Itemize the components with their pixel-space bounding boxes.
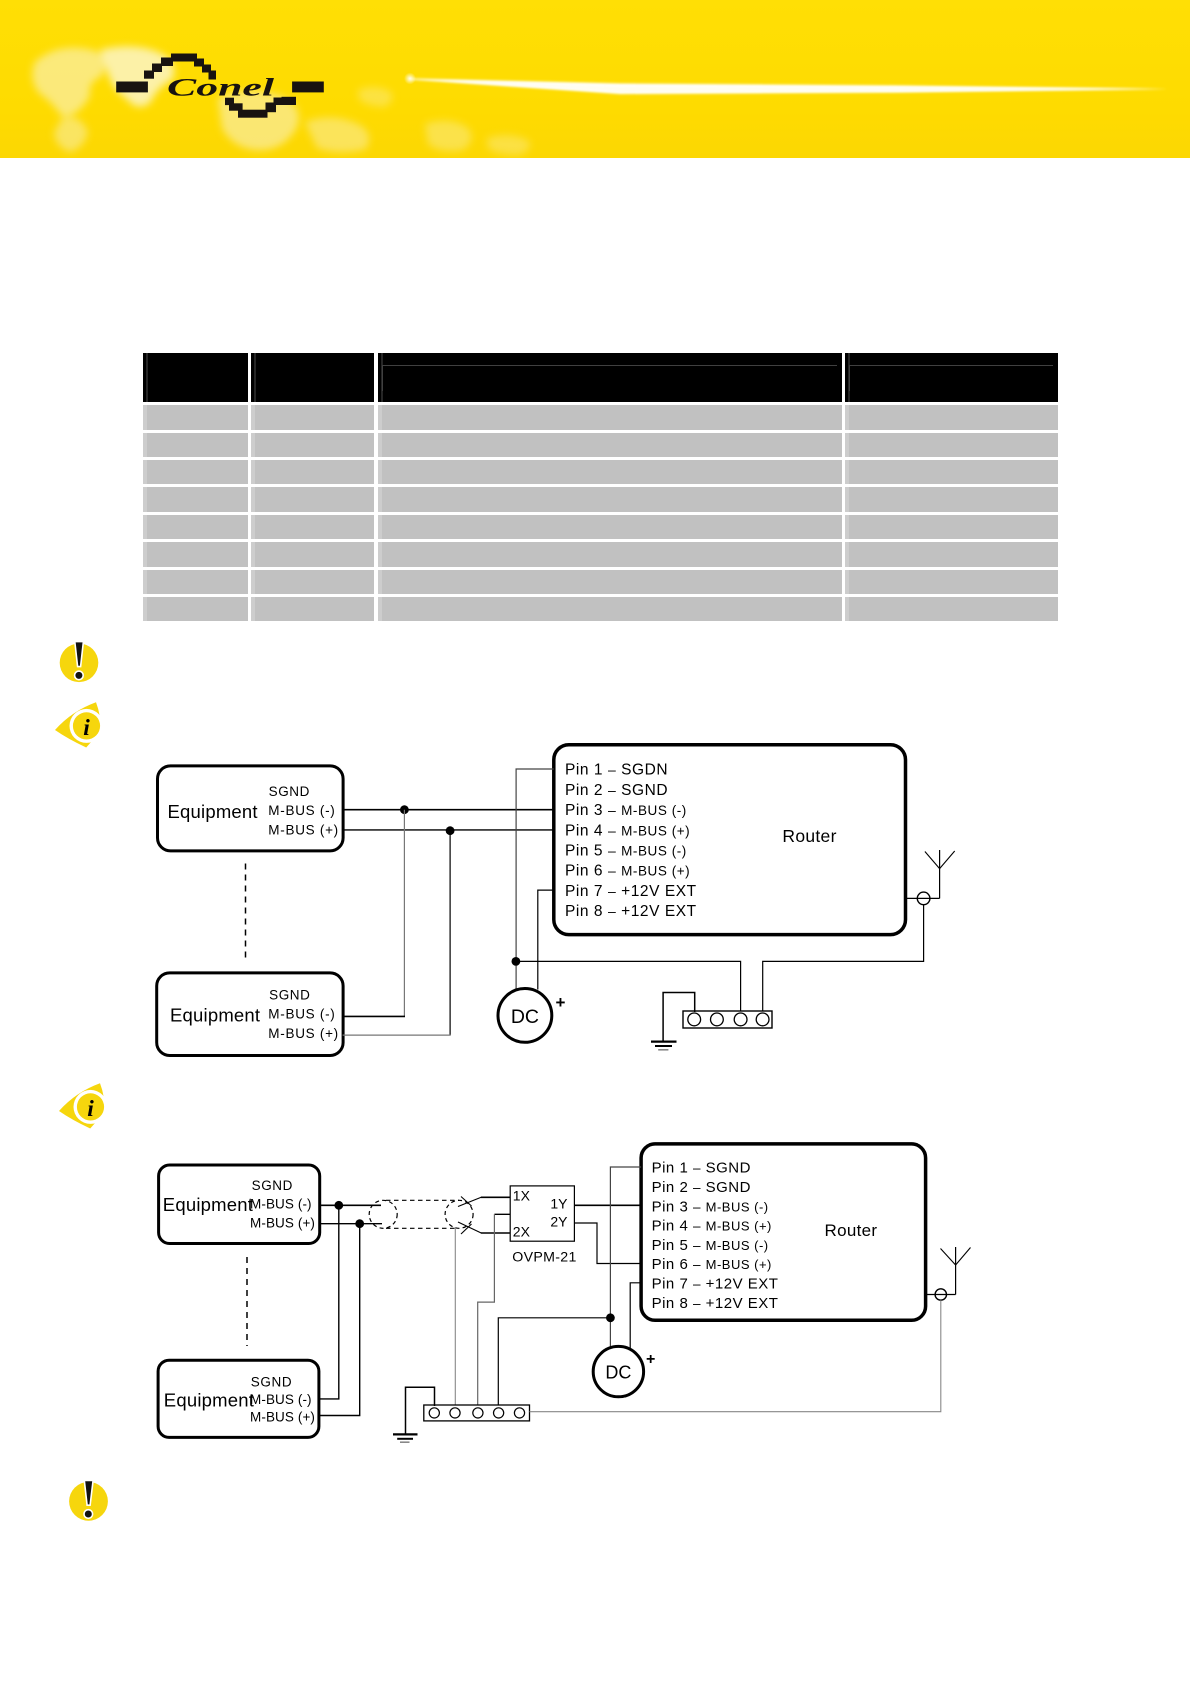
wiring diagram 2: M-BUS with OVPM-21 overvoltage protection: [140, 1140, 1000, 1460]
svg-text:Pin 6 – M-BUS (+): Pin 6 – M-BUS (+): [565, 863, 690, 880]
terminal hole 1: [429, 1408, 439, 1418]
info icon 1: [50, 697, 106, 753]
terminal hole 2: [450, 1408, 460, 1418]
equipment box E2: [157, 973, 343, 1056]
svg-text:2Y: 2Y: [550, 1213, 568, 1229]
svg-text:DC: DC: [511, 1006, 539, 1028]
svg-text:+: +: [556, 993, 566, 1012]
svg-text:Pin 3 – M-BUS (-): Pin 3 – M-BUS (-): [652, 1198, 769, 1215]
wire earth to terminal 1: [406, 1387, 435, 1434]
terminal hole 4: [494, 1408, 504, 1418]
wire pin7 to DC plus: [630, 1283, 641, 1348]
svg-text:Pin 1 – SGND: Pin 1 – SGND: [652, 1160, 751, 1177]
wire antenna net to terminal 5: [530, 1300, 941, 1412]
terminal hole 5: [514, 1408, 524, 1418]
svg-text:M-BUS (+): M-BUS (+): [268, 1026, 339, 1041]
shielded cable top: [386, 1199, 459, 1201]
wire earth to terminal 1: [663, 993, 695, 1042]
junction dot E: [355, 1219, 364, 1228]
terminal block 2: [424, 1405, 530, 1421]
wire pin1 to DC minus: [516, 769, 554, 990]
svg-text:Equipment: Equipment: [170, 1004, 260, 1025]
svg-text:M-BUS (-): M-BUS (-): [250, 1197, 312, 1212]
junction dot C: [512, 957, 521, 966]
svg-text:1Y: 1Y: [550, 1196, 568, 1212]
antenna mast 2: [955, 1247, 957, 1295]
wire OVPM ground pin: [494, 1213, 510, 1215]
antenna connector circle 2: [935, 1289, 946, 1300]
svg-text:Pin 1 – SGDN: Pin 1 – SGDN: [565, 762, 668, 779]
terminal hole 4: [756, 1013, 769, 1026]
wire router to antenna connector: [906, 897, 940, 899]
wire OVPM ground drop: [478, 1214, 495, 1406]
warning icon 1: [55, 638, 105, 688]
wire router to antenna connector 2: [926, 1294, 956, 1296]
OVPM-21 box: [510, 1186, 574, 1241]
lower pixel arc: [225, 98, 234, 105]
equipment box E3: [159, 1165, 320, 1244]
svg-text:Equipment: Equipment: [168, 801, 258, 822]
white light streak: [380, 60, 1190, 120]
svg-text:Router: Router: [825, 1221, 878, 1240]
svg-text:Equipment: Equipment: [164, 1389, 254, 1410]
Conel logo: [108, 44, 338, 129]
shielded cable left end: [369, 1200, 397, 1228]
antenna arm right: [940, 851, 955, 869]
wire to 1X: [481, 1196, 510, 1198]
wire pin7 to DC plus: [538, 890, 554, 989]
dashed ellipsis between equipments: [245, 864, 247, 962]
info icon 2: [54, 1078, 110, 1134]
terminal hole 3: [734, 1013, 747, 1026]
wire E3 M-BUS(+): [320, 1223, 382, 1225]
svg-text:M-BUS (+): M-BUS (+): [250, 1216, 315, 1231]
svg-text:Pin 7 – +12V EXT: Pin 7 – +12V EXT: [565, 883, 697, 900]
svg-text:Pin 2 – SGND: Pin 2 – SGND: [652, 1179, 751, 1196]
DC source 2: [593, 1346, 643, 1396]
terminal block: [683, 1011, 772, 1028]
wiring diagram 1: direct M-BUS connection: [140, 740, 1000, 1070]
svg-text:M-BUS (-): M-BUS (-): [268, 803, 335, 818]
wire E2 M-BUS(+): [343, 1034, 451, 1036]
faint world map: [0, 0, 700, 158]
antenna mast: [939, 850, 941, 898]
svg-text:Pin 4 – M-BUS (+): Pin 4 – M-BUS (+): [652, 1218, 772, 1235]
wire bus(-) drop to E4: [319, 1205, 339, 1399]
twisted pair crossover top: [458, 1197, 481, 1206]
wire DC net to terminal 3: [516, 961, 741, 1013]
ground symbol 2: [393, 1434, 418, 1442]
twisted pair crossover bottom: [458, 1222, 481, 1233]
svg-text:Pin 2 – SGND: Pin 2 – SGND: [565, 782, 668, 799]
antenna arm right 2: [956, 1248, 971, 1266]
shielded cable right end: [445, 1200, 473, 1228]
warning icon 2: [64, 1477, 114, 1527]
svg-text:M-BUS (+): M-BUS (+): [268, 823, 339, 838]
wire 2Y to router pin6: [574, 1223, 641, 1264]
svg-text:Conel: Conel: [167, 73, 276, 102]
antenna arm left: [925, 852, 940, 869]
router box R2: [641, 1144, 926, 1320]
upper pixel arc: [144, 71, 154, 79]
junction dot A: [400, 805, 409, 814]
wire to 2X: [481, 1232, 510, 1234]
svg-text:Pin 3 – M-BUS (-): Pin 3 – M-BUS (-): [565, 802, 687, 819]
junction dot B: [446, 826, 455, 835]
wire bus(-) vertical drop: [403, 810, 405, 1017]
svg-text:SGND: SGND: [269, 784, 310, 799]
svg-text:OVPM-21: OVPM-21: [512, 1250, 576, 1266]
wire E1 M-BUS(-) to router pin3: [343, 809, 554, 811]
dashed ellipsis between equipments: [246, 1257, 248, 1346]
svg-text:M-BUS (+): M-BUS (+): [250, 1410, 315, 1425]
terminal hole 2: [711, 1013, 724, 1026]
antenna connector circle: [917, 892, 930, 905]
svg-text:Pin 8 – +12V EXT: Pin 8 – +12V EXT: [565, 903, 697, 920]
terminal hole 1: [688, 1013, 701, 1026]
DC source: [498, 989, 552, 1043]
svg-text:Pin 8 – +12V EXT: Pin 8 – +12V EXT: [652, 1295, 779, 1312]
svg-text:SGND: SGND: [269, 987, 310, 1002]
terminal hole 3: [473, 1408, 483, 1418]
svg-text:i: i: [83, 715, 90, 741]
router box: [554, 745, 906, 935]
svg-text:Equipment: Equipment: [163, 1194, 253, 1215]
svg-text:i: i: [87, 1096, 94, 1122]
svg-text:Router: Router: [782, 826, 836, 846]
svg-text:Pin 5 – M-BUS (-): Pin 5 – M-BUS (-): [565, 843, 687, 860]
shield drain wire: [454, 1227, 456, 1406]
pin description table (redacted cells): [143, 353, 1058, 622]
svg-text:M-BUS (-): M-BUS (-): [268, 1007, 335, 1022]
antenna arm left 2: [941, 1249, 956, 1266]
svg-text:DC: DC: [605, 1362, 631, 1382]
svg-text:Pin 4 – M-BUS (+): Pin 4 – M-BUS (+): [565, 822, 690, 839]
junction dot F: [606, 1313, 615, 1322]
svg-text:M-BUS (-): M-BUS (-): [250, 1392, 312, 1407]
wire E2 M-BUS(-): [343, 1015, 405, 1017]
equipment box E1: [158, 766, 344, 851]
shielded cable bottom: [386, 1227, 456, 1229]
svg-text:2X: 2X: [513, 1223, 531, 1239]
svg-text:+: +: [646, 1351, 655, 1368]
svg-text:SGND: SGND: [252, 1178, 293, 1193]
wire bus(+) drop to E4: [319, 1224, 360, 1416]
junction dot D: [334, 1201, 343, 1210]
wire pin1 to DC minus: [610, 1167, 641, 1348]
yellow header band: [0, 0, 1190, 158]
ground symbol: [651, 1042, 677, 1050]
wire bus(+) vertical drop: [449, 831, 451, 1035]
svg-text:Pin 6 – M-BUS (+): Pin 6 – M-BUS (+): [652, 1256, 772, 1273]
wire antenna net to terminal 4: [763, 905, 924, 1013]
svg-text:Pin 5 – M-BUS (-): Pin 5 – M-BUS (-): [652, 1237, 769, 1254]
wire E1 M-BUS(+) to router pin4: [343, 829, 554, 831]
wire DC net to terminal 4: [498, 1318, 610, 1407]
equipment box E4: [158, 1360, 319, 1437]
svg-text:1X: 1X: [513, 1188, 531, 1204]
wire E3 M-BUS(-): [320, 1204, 381, 1206]
wire 1Y to router pin3: [574, 1204, 641, 1206]
svg-text:SGND: SGND: [251, 1374, 292, 1389]
svg-text:Pin 7 – +12V EXT: Pin 7 – +12V EXT: [652, 1276, 779, 1293]
